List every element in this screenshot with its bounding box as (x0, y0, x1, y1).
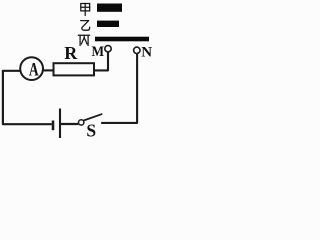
wire: M terminal stem down and left to resistor (94, 52, 109, 71)
label 丙 (wire sample bing) (78, 35, 89, 45)
switch S pivot circle (79, 120, 84, 125)
label 乙 (wire sample yi) (81, 21, 90, 31)
sample wire bar yi (thick medium) (97, 21, 119, 27)
wire: battery to switch (61, 123, 78, 125)
resistor R box (54, 63, 95, 75)
battery positive plate (long) (59, 109, 61, 139)
sample wire bar bing (thin long) (95, 37, 149, 42)
ammeter A circle (20, 57, 43, 80)
wire: switch to bottom right corner and up to N terminal (101, 54, 137, 123)
wire: ammeter left, down left side, bottom to battery (3, 71, 52, 124)
svg-text:R: R (64, 43, 78, 63)
svg-text:A: A (29, 61, 39, 81)
battery negative plate (short thick) (52, 121, 55, 131)
wire: ammeter to resistor (43, 69, 55, 71)
sample wire bar jia (thick short) (97, 4, 122, 12)
svg-text:N: N (141, 45, 152, 61)
terminal N circle (134, 47, 140, 53)
svg-text:S: S (86, 120, 96, 140)
svg-text:M: M (92, 44, 105, 60)
terminal M circle (105, 46, 111, 52)
label 甲 (wire sample jia) (81, 4, 90, 16)
switch S lever (open) (84, 114, 102, 120)
